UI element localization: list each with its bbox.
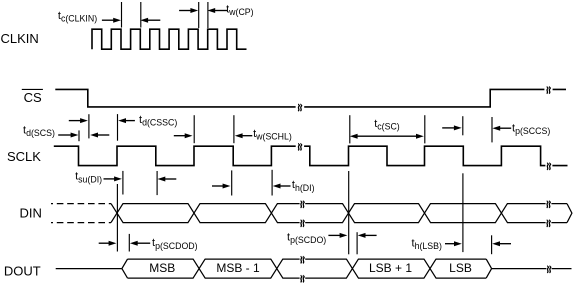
t_d(CSSC) arrows <box>69 120 82 122</box>
svg-text:DOUT: DOUT <box>4 263 41 278</box>
DOUT bus rails <box>128 259 487 278</box>
SCLK break mark (high) <box>298 143 302 150</box>
svg-text:td(CSSC): td(CSSC) <box>139 114 177 128</box>
t_w(SCHL) dimension lines <box>193 115 195 143</box>
DOUT crossings <box>193 259 436 278</box>
SCLK rise long line (t_p(SCDO) left) <box>348 171 350 254</box>
svg-text:td(SCS): td(SCS) <box>23 125 55 139</box>
DOUT opening <box>122 259 128 278</box>
DIN bus rails <box>123 204 567 223</box>
t_h(LSB) right line (DOUT invalid) <box>491 235 493 254</box>
CS break mark (right) <box>547 87 551 94</box>
svg-text:tp(SCCS): tp(SCCS) <box>512 123 550 137</box>
t_w(CP) arrows <box>179 10 192 12</box>
CLKIN clock waveform <box>92 29 247 49</box>
t_p(SCDO) right line <box>356 232 358 254</box>
t_c(SC) double arrow <box>356 135 418 137</box>
SCLK fall line (DIN band) <box>156 171 158 195</box>
t_h(LSB) arrows <box>445 243 456 245</box>
setup reference arrow <box>164 178 177 180</box>
t_p(SCDO) arrows <box>328 234 341 236</box>
t_p(SCDOD) arrows <box>99 242 111 244</box>
t_c(CLKIN) dimension lines <box>121 2 123 28</box>
svg-text:tsu(DI): tsu(DI) <box>75 171 102 185</box>
t_d(CSSC) right line (SCLK rise) <box>117 114 119 141</box>
svg-text:tc(SC): tc(SC) <box>374 118 400 132</box>
t_h(DI) left arrow <box>212 185 224 187</box>
DIN break marks <box>301 201 305 208</box>
t_su(DI) arrow <box>104 178 116 180</box>
svg-text:th(DI): th(DI) <box>292 179 315 193</box>
t_w(SCHL) arrows <box>174 135 187 137</box>
svg-text:DIN: DIN <box>20 206 42 221</box>
DOUT lead-in line <box>56 268 122 270</box>
svg-text:SCLK: SCLK <box>7 149 41 164</box>
t_h(DI) right arrow <box>279 185 291 187</box>
t_p(SCCS) arrow <box>498 127 511 129</box>
DIN change long line <box>116 184 118 252</box>
svg-text:tp(SCDOD): tp(SCDOD) <box>152 237 198 251</box>
CS waveform <box>55 89 566 107</box>
svg-text:LSB: LSB <box>449 261 472 275</box>
t_su(DI) right line (DIN valid) <box>122 171 124 195</box>
t_c(CLKIN) arrows <box>102 19 115 21</box>
svg-text:MSB: MSB <box>149 261 175 275</box>
svg-text:th(LSB): th(LSB) <box>412 237 443 251</box>
t_h(DI) right line (SCLK rise) <box>271 170 273 196</box>
svg-text:tw(CP): tw(CP) <box>226 4 254 18</box>
t_w(CP) dimension lines <box>198 2 200 28</box>
svg-text:LSB + 1: LSB + 1 <box>369 261 412 275</box>
svg-text:tw(SCHL): tw(SCHL) <box>253 128 292 142</box>
svg-text:CLKIN: CLKIN <box>1 31 39 46</box>
DIN dashed lead-in rails <box>51 204 111 223</box>
svg-text:CS: CS <box>24 90 42 105</box>
t_d(SCS) left line (SCLK fall) <box>78 130 80 141</box>
t_c(SC) dimension lines <box>349 115 351 143</box>
SCLK fall long line (t_h(LSB) left) <box>462 173 464 252</box>
t_d(SCS) arrows <box>58 134 72 136</box>
t_h(DI) left line <box>231 170 233 195</box>
CS signal label with overline <box>22 88 43 90</box>
svg-text:tp(SCDO): tp(SCDO) <box>287 231 326 245</box>
t_p(SCCS) left arrow (at SCLK fall line) <box>462 116 464 135</box>
t_p(SCDOD) right line (DOUT valid) <box>128 234 130 252</box>
SCLK break mark (right low) <box>547 163 551 170</box>
CS fall extension line <box>88 114 90 138</box>
t_p(SCCS) right line (CS rise extension) <box>491 117 493 142</box>
DOUT break marks <box>301 256 305 263</box>
DIN crossings <box>111 204 507 223</box>
CS break mark (low) <box>298 104 302 111</box>
DOUT closing chevron <box>486 259 491 278</box>
svg-text:tc(CLKIN): tc(CLKIN) <box>58 10 97 24</box>
DOUT trailing line <box>492 268 572 270</box>
svg-text:MSB - 1: MSB - 1 <box>216 261 260 275</box>
SCLK waveform <box>54 146 568 165</box>
DIN closing chevron <box>567 204 572 223</box>
